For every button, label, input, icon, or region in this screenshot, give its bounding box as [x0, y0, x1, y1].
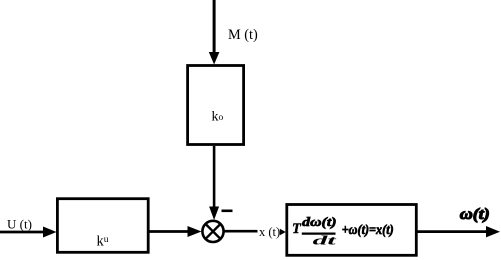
fraction bar — [302, 233, 336, 235]
arrowhead into block ko — [209, 52, 220, 65]
wire plant output — [417, 230, 487, 233]
arrowhead into summing junction from ku — [188, 226, 202, 237]
arrowhead into summing junction — [209, 207, 219, 221]
wire summing junction to plant block — [224, 230, 258, 233]
svg-text:U (t): U (t) — [7, 217, 32, 232]
minus sign at summing junction — [222, 210, 233, 213]
svg-text:+ω(t)=x(t): +ω(t)=x(t) — [342, 222, 394, 237]
block ku — [57, 199, 148, 253]
arrowhead into block ku — [43, 227, 57, 238]
wire ko to summing junction — [213, 146, 216, 208]
svg-text:x (t): x (t) — [259, 225, 280, 239]
svg-text:dt: dt — [313, 232, 337, 247]
svg-text:dω(t): dω(t) — [302, 214, 336, 229]
wire ku to summing junction — [149, 230, 188, 233]
arrowhead output — [486, 226, 500, 237]
block plant transfer function — [287, 205, 417, 256]
summing junction — [202, 221, 223, 242]
svg-text:M (t): M (t) — [228, 27, 258, 43]
wire M(t) input — [213, 0, 216, 53]
block ko — [188, 66, 244, 145]
svg-text:T: T — [292, 221, 302, 237]
svg-text:ω(t): ω(t) — [460, 206, 490, 223]
wire U(t) input — [0, 231, 44, 234]
arrowhead into plant block — [280, 229, 286, 235]
